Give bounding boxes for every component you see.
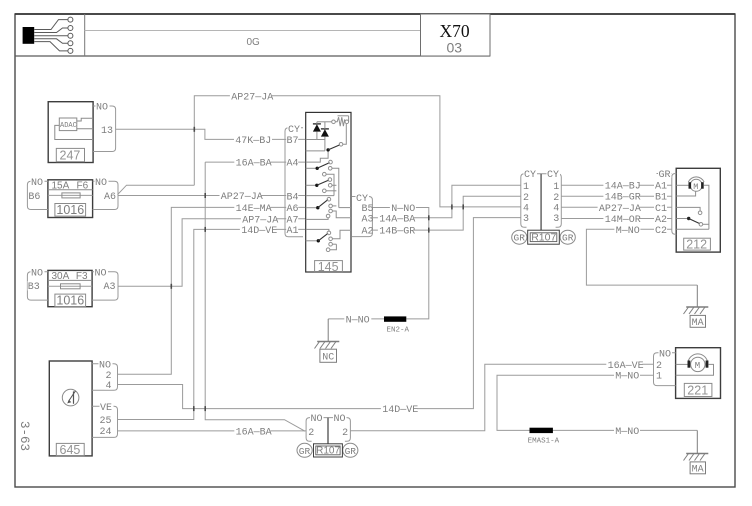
svg-text:221: 221 bbox=[687, 383, 708, 397]
svg-text:16A—VE: 16A—VE bbox=[608, 361, 644, 372]
right bracket NO bbox=[328, 418, 350, 442]
unit 645 box bbox=[49, 361, 92, 456]
pin numbers right bbox=[552, 181, 559, 191]
svg-text:3-63: 3-63 bbox=[17, 421, 31, 451]
label 212 bbox=[684, 237, 711, 251]
svg-text:GR: GR bbox=[345, 446, 357, 457]
svg-text:M—NO: M—NO bbox=[616, 226, 640, 237]
svg-text:0G: 0G bbox=[247, 37, 261, 48]
left bracket CY bbox=[521, 174, 541, 227]
wire M-NO: 221 pin 1 via splice EMAS1-A to ground MA bbox=[497, 370, 697, 438]
svg-text:A6: A6 bbox=[104, 192, 116, 203]
ADAC sub-unit bbox=[55, 118, 93, 140]
svg-text:25: 25 bbox=[100, 416, 112, 427]
svg-text:X70: X70 bbox=[440, 21, 470, 41]
wire 14B-GR: R107 right pin2 to 212 B1 bbox=[561, 191, 672, 203]
svg-text:A3: A3 bbox=[362, 214, 374, 225]
wire 14A-BJ: R107 right pin1 to 212 A1 bbox=[561, 180, 672, 192]
relay 145 box bbox=[306, 112, 351, 272]
svg-text:NO: NO bbox=[334, 414, 346, 425]
diode D2 bbox=[321, 122, 329, 151]
pin numbers left bbox=[522, 181, 529, 191]
svg-text:24: 24 bbox=[100, 427, 112, 438]
splice EN2-A bbox=[384, 316, 410, 334]
label 145 bbox=[315, 260, 343, 274]
wire 16A-VE: R107 bottom right pin2 to 221 pin 2 bbox=[350, 360, 653, 431]
svg-text:M—NO: M—NO bbox=[615, 427, 639, 438]
svg-text:M: M bbox=[693, 182, 698, 192]
wire 14D-VE: 645 pin 4 to R107 top left pin 3 bbox=[118, 218, 521, 417]
svg-text:B4: B4 bbox=[287, 192, 299, 203]
svg-text:2: 2 bbox=[342, 428, 348, 439]
svg-text:2: 2 bbox=[523, 193, 529, 204]
svg-text:4: 4 bbox=[106, 381, 112, 392]
bracket VE pins 25,24 of 645 bbox=[92, 402, 117, 438]
motor M of 212 bbox=[676, 177, 709, 229]
svg-text:A1: A1 bbox=[655, 182, 667, 193]
svg-text:A6: A6 bbox=[287, 204, 299, 215]
label 221 bbox=[684, 383, 712, 397]
wire 247 pin13 to relay B7 (47K-BJ) bbox=[116, 129, 306, 147]
crossing ticks bbox=[171, 127, 463, 411]
svg-text:1: 1 bbox=[553, 182, 559, 193]
svg-text:VE: VE bbox=[100, 403, 112, 414]
relay switch S5 bbox=[306, 229, 351, 251]
label 645 bbox=[56, 443, 84, 457]
bracket A6 (right) bbox=[93, 177, 118, 210]
center line bbox=[327, 418, 329, 444]
svg-text:NO: NO bbox=[31, 269, 43, 280]
ground MA (lower right) bbox=[684, 430, 709, 475]
diode D1 bbox=[313, 122, 321, 140]
wire 16A-BA: 645 pin 24 to R107 bottom left pin 2 bbox=[118, 426, 307, 438]
svg-text:A4: A4 bbox=[287, 159, 299, 170]
svg-text:B7: B7 bbox=[287, 136, 299, 147]
svg-text:2: 2 bbox=[308, 428, 314, 439]
wire 14E-MA: relay A6 to 645 pin 2 bbox=[118, 203, 306, 375]
svg-text:CY: CY bbox=[547, 170, 559, 181]
wire AP27-JA (top feed) bbox=[194, 91, 521, 207]
svg-text:14A—BA: 14A—BA bbox=[379, 214, 415, 225]
svg-text:CY: CY bbox=[524, 170, 536, 181]
svg-text:NO: NO bbox=[311, 414, 323, 425]
X70 title box bbox=[421, 14, 491, 56]
svg-text:1: 1 bbox=[656, 371, 662, 382]
svg-text:A2: A2 bbox=[362, 227, 374, 238]
GR ovals and R107 label bbox=[297, 443, 312, 457]
svg-text:16A—BA: 16A—BA bbox=[236, 427, 272, 438]
svg-text:4: 4 bbox=[553, 204, 559, 215]
bracket B3 (left) bbox=[27, 267, 48, 300]
unit 212 box bbox=[676, 168, 720, 252]
svg-text:2: 2 bbox=[656, 361, 662, 372]
svg-text:GR: GR bbox=[659, 170, 671, 181]
park switch of 212 bbox=[676, 207, 709, 229]
svg-text:14A—BJ: 14A—BJ bbox=[605, 182, 641, 193]
right bracket CY bbox=[541, 174, 561, 227]
svg-text:B1: B1 bbox=[655, 193, 667, 204]
svg-text:B6: B6 bbox=[28, 192, 40, 203]
svg-text:NO: NO bbox=[659, 349, 671, 360]
wire AP27-JA: R107 right pin4 to 212 C1 bbox=[561, 203, 672, 215]
svg-text:B3: B3 bbox=[28, 282, 40, 293]
svg-text:NO: NO bbox=[31, 178, 43, 189]
svg-text:14D—VE: 14D—VE bbox=[382, 405, 418, 416]
svg-text:ADAC: ADAC bbox=[60, 122, 77, 130]
svg-text:NC: NC bbox=[322, 353, 334, 364]
relay right bracket CY pins B5 A3 A2 bbox=[352, 192, 374, 237]
svg-text:A2: A2 bbox=[655, 215, 667, 226]
unit 221 box bbox=[676, 348, 721, 399]
svg-text:13: 13 bbox=[101, 126, 113, 137]
svg-text:MA: MA bbox=[692, 318, 704, 329]
svg-text:1: 1 bbox=[523, 182, 529, 193]
svg-text:14B—GR: 14B—GR bbox=[379, 227, 415, 238]
relay switch S2 bbox=[306, 160, 339, 207]
center line bbox=[540, 174, 542, 230]
svg-text:14E—MA: 14E—MA bbox=[236, 204, 272, 215]
wire 16A-BA: relay A4 down to R107 bottom pin 2 bbox=[205, 157, 306, 431]
svg-text:14D—VE: 14D—VE bbox=[241, 226, 277, 237]
wire M-NO: 212 C2 to ground MA bbox=[586, 225, 697, 286]
svg-text:AP27—JA: AP27—JA bbox=[599, 204, 641, 215]
svg-text:NO: NO bbox=[96, 103, 108, 114]
relay internal wires (top) bbox=[306, 140, 325, 151]
wire 14B-GR: relay A2 to R107 top left pin 2 bbox=[373, 196, 521, 237]
svg-text:14M—OR: 14M—OR bbox=[605, 215, 641, 226]
header bar bbox=[15, 14, 490, 56]
svg-text:F6: F6 bbox=[77, 181, 89, 192]
svg-text:GR: GR bbox=[562, 233, 574, 244]
svg-text:645: 645 bbox=[60, 443, 81, 457]
relay left bracket CY pins B7 A4 B4 A6 A7 A1 bbox=[285, 124, 303, 238]
svg-text:M—NO: M—NO bbox=[615, 372, 639, 383]
connector bracket NO / pin 13 of 247 bbox=[93, 101, 116, 152]
svg-text:F3: F3 bbox=[76, 271, 88, 282]
svg-text:2: 2 bbox=[553, 193, 559, 204]
svg-text:R107: R107 bbox=[531, 232, 556, 244]
svg-text:C2: C2 bbox=[655, 226, 667, 237]
svg-text:GR: GR bbox=[514, 233, 526, 244]
wire 14A-BA: relay A3 to R107 top left pin 1 bbox=[373, 185, 521, 225]
svg-text:212: 212 bbox=[686, 237, 707, 251]
svg-text:N—NO: N—NO bbox=[346, 315, 370, 326]
svg-text:NO: NO bbox=[95, 178, 107, 189]
svg-text:30A: 30A bbox=[52, 271, 70, 282]
bracket A3 (right) bbox=[92, 267, 118, 300]
svg-text:EMAS1-A: EMAS1-A bbox=[528, 437, 560, 445]
svg-text:145: 145 bbox=[318, 260, 339, 274]
svg-text:AP27—JA: AP27—JA bbox=[231, 92, 273, 103]
svg-text:CY: CY bbox=[288, 125, 300, 136]
svg-text:R107: R107 bbox=[316, 445, 340, 456]
svg-text:A7: A7 bbox=[287, 215, 299, 226]
bracket NO pins 2,4 of 645 bbox=[92, 359, 117, 392]
svg-text:03: 03 bbox=[447, 40, 463, 56]
svg-text:1016: 1016 bbox=[56, 294, 84, 308]
svg-text:EN2-A: EN2-A bbox=[387, 326, 410, 334]
relay switch S3 bbox=[306, 178, 351, 208]
wire fuse A6 to relay B4 (AP27-JA) bbox=[118, 185, 306, 203]
motor M of 221 bbox=[676, 354, 714, 375]
svg-text:M: M bbox=[695, 361, 700, 371]
svg-text:14B—GR: 14B—GR bbox=[605, 193, 641, 204]
ignition symbol in 645 bbox=[62, 389, 79, 406]
relay coil resistor bbox=[317, 116, 349, 126]
bracket B6 (left) bbox=[27, 177, 48, 210]
svg-text:1016: 1016 bbox=[56, 203, 84, 217]
fuse element F6 bbox=[62, 193, 80, 198]
fuse box 1016 (30A F3) bbox=[48, 270, 92, 307]
svg-text:C1: C1 bbox=[655, 204, 667, 215]
bracket NO pins 2,1 of 221 bbox=[654, 349, 676, 386]
svg-text:GR: GR bbox=[299, 446, 311, 457]
relay switch S4 bbox=[306, 197, 351, 219]
left bracket NO bbox=[306, 418, 328, 442]
label 247 bbox=[56, 148, 84, 162]
wire N-NO: relay B5 to splice EN2-A and ground NC bbox=[328, 203, 429, 327]
wire 14D-VE: 645 pin 25 to relay A1 bbox=[118, 225, 306, 420]
ground NC bbox=[315, 319, 340, 364]
GR ovals and R107 label bbox=[512, 230, 527, 244]
svg-text:A3: A3 bbox=[104, 282, 116, 293]
svg-text:3: 3 bbox=[523, 214, 529, 225]
splice EMAS1-A bbox=[528, 428, 560, 446]
svg-text:3: 3 bbox=[553, 214, 559, 225]
svg-text:15A: 15A bbox=[52, 181, 70, 192]
harness connector icon bbox=[23, 17, 73, 53]
svg-text:AP27—JA: AP27—JA bbox=[221, 192, 263, 203]
ground MA (upper right) bbox=[684, 285, 709, 329]
svg-text:A1: A1 bbox=[287, 226, 299, 237]
wire AP7-JA: fuse A3 to relay A7 bbox=[118, 214, 306, 286]
wire 14M-OR: R107 right pin3 to 212 A2 bbox=[561, 214, 672, 226]
svg-text:16A—BA: 16A—BA bbox=[236, 159, 272, 170]
fuse box 1016 (15A F6) bbox=[48, 180, 93, 218]
fuse element F3 bbox=[61, 284, 81, 289]
bracket GR pins A1 B1 C1 A2 C2 of 212 bbox=[654, 169, 676, 237]
relay switch S1 bbox=[306, 124, 347, 163]
unit 247 box bbox=[48, 102, 93, 163]
svg-text:47K—BJ: 47K—BJ bbox=[235, 136, 271, 147]
svg-text:247: 247 bbox=[60, 149, 81, 163]
svg-text:MA: MA bbox=[692, 465, 704, 476]
svg-text:4: 4 bbox=[523, 204, 529, 215]
svg-text:NO: NO bbox=[95, 269, 107, 280]
